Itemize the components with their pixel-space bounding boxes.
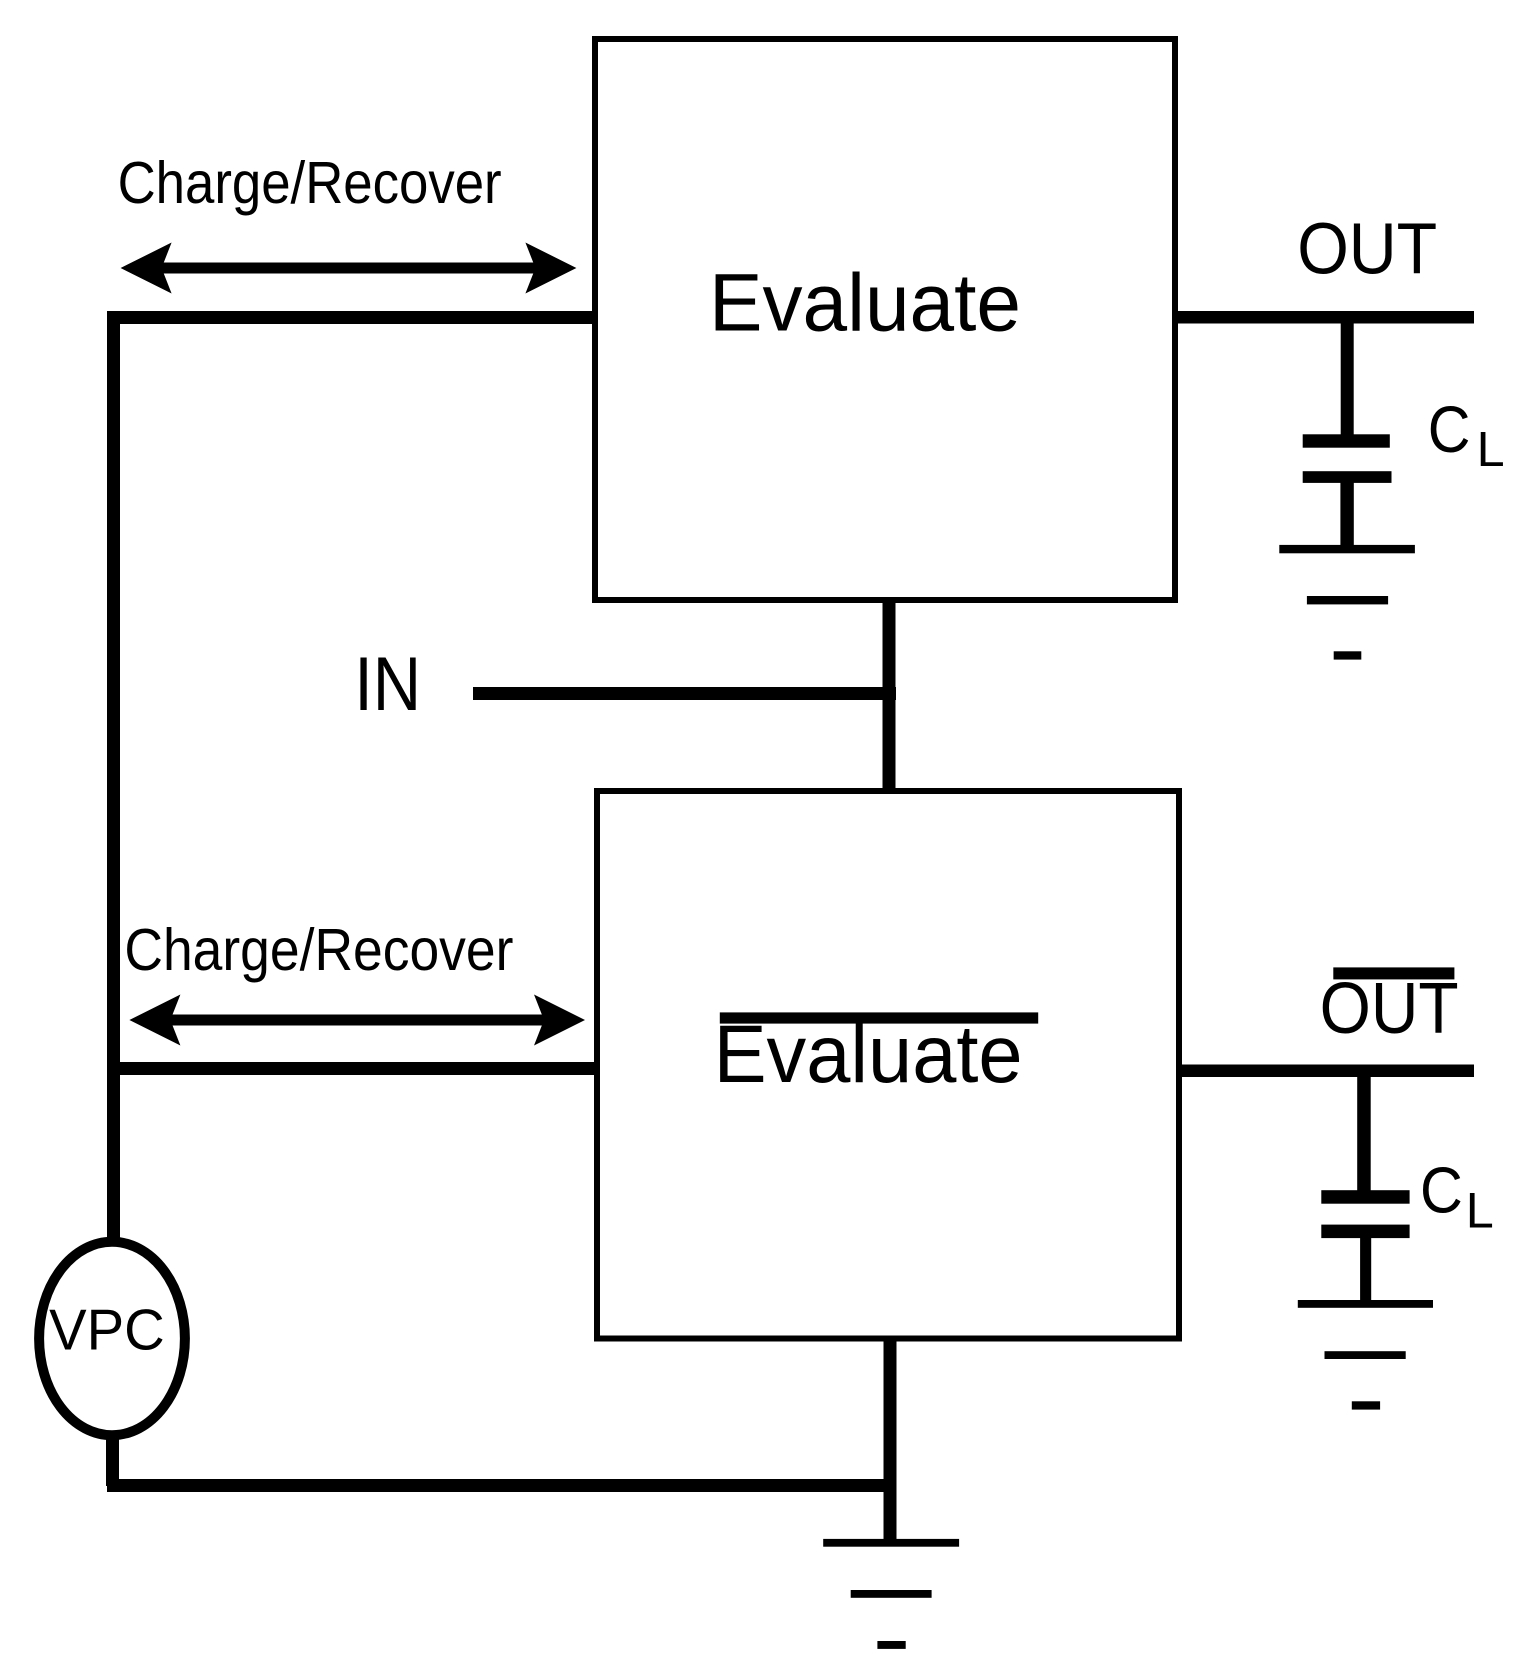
wire: bottom return rail from VPC to center ground stem [107,1479,896,1492]
svg-text:C: C [1420,1154,1463,1227]
arrow: bidirectional Charge/Recover (top) [121,243,577,294]
label: C_L (top) [1428,392,1505,477]
wire: left vertical rail from top node down to VPC [107,311,120,1241]
block U2: Evaluate-bar (bottom complementary evaluate tree) [597,791,1179,1339]
wire: U2 output to OUT-bar node [1178,1065,1474,1078]
ground (top right) [1279,545,1415,660]
label: C_L (bottom) [1420,1154,1494,1239]
svg-text:IN: IN [354,642,421,727]
ground (bottom right) [1298,1300,1433,1410]
capacitor C_L (bottom): plates [1321,1190,1409,1238]
wire: OUT node down to capacitor CL (top) [1341,317,1354,437]
svg-text:L: L [1477,423,1505,477]
wire: capacitor CL bottom plate to ground (top right) [1340,482,1353,546]
wire: U1 output to OUT node [1174,311,1474,324]
label: Charge/Recover (bottom) [124,916,513,983]
svg-text:C: C [1428,392,1471,466]
svg-text:L: L [1466,1183,1494,1239]
svg-text:Evaluate: Evaluate [709,258,1021,349]
svg-text:OUT: OUT [1320,969,1459,1049]
wire: internal node between U1 bottom and U2 top [883,599,896,794]
label: IN [354,642,421,727]
label: OUT-bar (bottom, complemented output) [1320,967,1459,1049]
ground (center bottom) [823,1539,959,1649]
wire: capacitor CL bottom plate to ground (bottom right) [1360,1238,1371,1301]
source VPC: power-clock supply [39,1242,185,1435]
wire: VPC bottom stem to return rail [106,1438,119,1486]
svg-text:VPC: VPC [49,1298,165,1362]
wire: IN input to internal node [473,687,896,700]
wire: left rail top horizontal segment to U1 left input [107,311,598,324]
svg-text:OUT: OUT [1297,208,1437,289]
svg-text:Charge/Recover: Charge/Recover [118,149,502,216]
block U1: Evaluate (top evaluate tree) [595,39,1175,600]
svg-text:Charge/Recover: Charge/Recover [124,916,513,983]
wire: left rail to U2 left input (bottom charge/recover) [107,1062,598,1075]
capacitor C_L (top): plates [1303,434,1392,483]
label: Charge/Recover (top) [118,149,502,216]
arrow: bidirectional Charge/Recover (bottom) [129,995,585,1046]
wire: OUT-bar node down to capacitor CL (bottom) [1357,1070,1371,1192]
wire: U2 bottom ground stem [884,1339,897,1543]
label: OUT (top) [1297,208,1437,289]
svg-text:Evaluate: Evaluate [714,1009,1023,1100]
